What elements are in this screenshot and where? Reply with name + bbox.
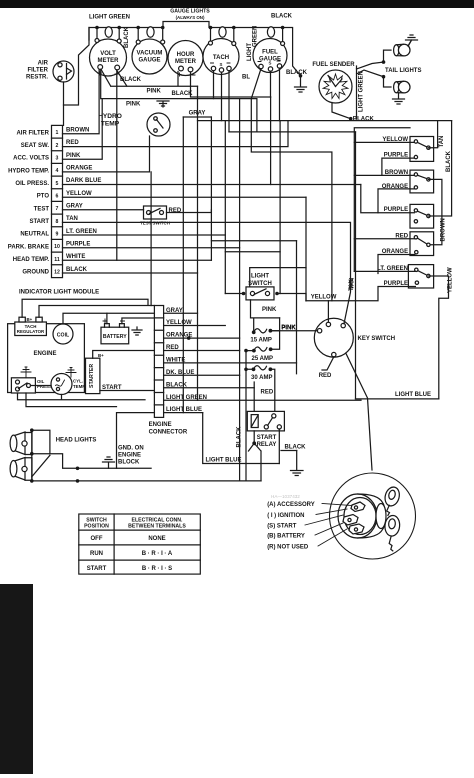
battery bbox=[101, 319, 129, 344]
ground under black dot right of fuel gauge bbox=[295, 76, 307, 92]
wire starter start bbox=[100, 390, 154, 392]
wire row3 pink bbox=[63, 99, 103, 160]
svg-text:AIR: AIR bbox=[38, 61, 49, 67]
svg-text:METER: METER bbox=[175, 59, 197, 65]
wire keyswitch pink bbox=[272, 330, 317, 332]
svg-text:VOLT: VOLT bbox=[100, 51, 116, 57]
svg-text:LIGHT GREEN: LIGHT GREEN bbox=[89, 15, 130, 21]
switch SW1 bbox=[382, 137, 433, 162]
wire sw5 right yellow bbox=[428, 276, 448, 399]
ground above hydro temp bbox=[157, 101, 169, 107]
pin function labels bbox=[8, 130, 50, 275]
wire yellow ladder row bbox=[164, 325, 226, 327]
wire tail light lower feed light green bbox=[357, 66, 392, 119]
wire row8 tan bbox=[63, 222, 351, 323]
ground below right BLACK bbox=[291, 451, 304, 476]
svg-text:TACH: TACH bbox=[213, 55, 229, 61]
wire vertical x296.5 bbox=[296, 241, 298, 374]
svg-text:HYDRO TEMP.: HYDRO TEMP. bbox=[8, 168, 49, 174]
wire sw right black bbox=[428, 121, 451, 216]
svg-text:LT. GREEN: LT. GREEN bbox=[66, 229, 97, 235]
wire row2 red bbox=[63, 121, 289, 147]
svg-text:ENGINE: ENGINE bbox=[33, 351, 56, 357]
head lamp lower bbox=[12, 458, 25, 481]
ENGINE block bbox=[8, 317, 142, 395]
RIGHT switches column bbox=[350, 136, 454, 293]
svg-text:BLACK: BLACK bbox=[271, 14, 293, 20]
wire volt meter black diagonals bbox=[101, 70, 197, 260]
svg-text:REGULATOR: REGULATOR bbox=[17, 329, 45, 334]
wire drop to volt meter right terminal bbox=[118, 28, 120, 40]
svg-text:RED: RED bbox=[261, 390, 274, 396]
wire tail light upper feed bbox=[357, 50, 392, 69]
wire black ladder row bbox=[164, 387, 255, 389]
svg-text:YELLOW: YELLOW bbox=[66, 191, 92, 197]
wire row9 lt green bbox=[63, 234, 226, 236]
svg-text:ELECTRICAL CONN.: ELECTRICAL CONN. bbox=[132, 518, 183, 524]
wire battery to ladder bbox=[107, 313, 154, 323]
gauge VACUUM GAUGE bbox=[132, 39, 167, 74]
lamp bulb over fuel gauge bbox=[267, 27, 274, 37]
gauge TACH bbox=[203, 39, 239, 75]
svg-text:GAUGE: GAUGE bbox=[138, 58, 160, 64]
svg-text:LIGHT GREEN: LIGHT GREEN bbox=[359, 71, 365, 112]
ladder wire color labels bbox=[166, 308, 207, 413]
svg-text:OIL PRESS.: OIL PRESS. bbox=[15, 181, 49, 187]
head lights bbox=[10, 428, 261, 482]
svg-text:DARK BLUE: DARK BLUE bbox=[66, 178, 101, 184]
wire white ladder row bbox=[164, 362, 297, 364]
svg-text:(R) NOT USED: (R) NOT USED bbox=[267, 545, 309, 551]
svg-text:SEAT SW.: SEAT SW. bbox=[21, 143, 50, 149]
tail light lower bbox=[394, 81, 410, 93]
wire row11 white bbox=[63, 259, 212, 261]
wire keyswitch red bbox=[322, 357, 334, 370]
svg-text:HEAD TEMP.: HEAD TEMP. bbox=[13, 257, 50, 263]
svg-text:RESTR.: RESTR. bbox=[26, 75, 48, 81]
terminal numbers 1-12 bbox=[54, 130, 60, 275]
wire air filter to connector pin1 bbox=[63, 82, 65, 125]
wire light blue ladder row bbox=[117, 413, 203, 469]
svg-text:METER: METER bbox=[98, 58, 120, 64]
wire red to relay bbox=[253, 382, 255, 411]
head lamp upper bbox=[12, 432, 25, 455]
svg-text:WHITE: WHITE bbox=[66, 254, 85, 260]
svg-text:BLOCK: BLOCK bbox=[118, 460, 140, 466]
wire hour meter right terminal black bbox=[191, 72, 271, 97]
wire from key switch into illustration bbox=[346, 354, 372, 471]
switch SW5 bbox=[377, 265, 433, 288]
wire row6 yellow bbox=[63, 196, 307, 198]
wire vertical x239.6 bbox=[239, 99, 241, 481]
wire bus y131.9 bbox=[229, 131, 356, 133]
wire vertical x306 yellow bbox=[305, 197, 307, 301]
svg-text:RELAY: RELAY bbox=[257, 442, 277, 448]
wire tach regulator risers bbox=[22, 299, 154, 317]
svg-text:YELLOW: YELLOW bbox=[311, 294, 337, 300]
hydro temp sender bbox=[98, 113, 170, 136]
terminal circles on gauge tops bbox=[95, 39, 99, 43]
engine outline box bbox=[8, 324, 85, 393]
ground above oil press bbox=[21, 367, 31, 378]
connector ladder body bbox=[154, 306, 163, 418]
wire fuse right rail bbox=[270, 318, 279, 349]
svg-text:TAN: TAN bbox=[439, 136, 445, 148]
svg-text:(B) BATTERY: (B) BATTERY bbox=[267, 534, 305, 540]
top black border bar bbox=[0, 0, 474, 8]
LEFTCONN indicator light module connector bbox=[8, 125, 102, 295]
wire light blue mid run bbox=[203, 413, 280, 464]
wire drop to tach left terminal bbox=[210, 28, 212, 42]
tach bottom terminals bbox=[211, 66, 215, 70]
svg-text:( I ) IGNITION: ( I ) IGNITION bbox=[267, 513, 304, 519]
wire sw2-sw4 brown link bbox=[428, 179, 442, 244]
wire row10 purple bbox=[63, 247, 240, 249]
junction dots on gauge light bus bbox=[95, 26, 302, 78]
svg-text:BL: BL bbox=[242, 75, 250, 81]
svg-text:PARK. BRAKE: PARK. BRAKE bbox=[8, 244, 49, 250]
wire bus y251.8 bbox=[225, 251, 280, 253]
wire vertical x270.6 bbox=[270, 97, 272, 185]
svg-text:BETWEEN TERMINALS: BETWEEN TERMINALS bbox=[128, 524, 186, 530]
svg-text:BLACK: BLACK bbox=[66, 267, 88, 273]
svg-text:12: 12 bbox=[54, 270, 60, 276]
wire bus y240.7 bbox=[211, 240, 296, 242]
terminal polarity marks bbox=[98, 61, 281, 76]
lamp bulb over vacuum gauge bbox=[147, 27, 154, 37]
wire left bus x354.3 bbox=[354, 128, 410, 272]
wire switch feeds left red4 bbox=[354, 238, 414, 240]
wire fuel sender to black junction bbox=[332, 103, 351, 119]
callout lines bbox=[322, 504, 352, 506]
svg-text:B · R · I · S: B · R · I · S bbox=[142, 566, 172, 572]
svg-text:BATTERY: BATTERY bbox=[103, 334, 127, 340]
svg-text:7: 7 bbox=[56, 206, 59, 212]
svg-text:AIR FILTER: AIR FILTER bbox=[16, 130, 49, 136]
wire drop to fuel gauge left bbox=[282, 28, 284, 42]
svg-text:8: 8 bbox=[56, 219, 59, 225]
wire switch feeds left purple3 bbox=[361, 185, 415, 213]
svg-text:3: 3 bbox=[56, 156, 59, 162]
svg-text:VACUUM: VACUUM bbox=[137, 51, 163, 57]
wire light switch pink drop to fuse top bbox=[251, 300, 280, 331]
svg-text:CONNECTOR: CONNECTOR bbox=[149, 430, 188, 436]
vertical color labels right side bbox=[350, 136, 454, 293]
svg-text:ENGINE: ENGINE bbox=[118, 453, 141, 459]
black dot on bus bbox=[349, 117, 353, 121]
wire dk blue ladder row bbox=[164, 374, 240, 376]
svg-text:BLACK: BLACK bbox=[172, 91, 194, 97]
svg-text:START: START bbox=[257, 435, 277, 441]
wire relay bottom junction bbox=[249, 431, 262, 481]
svg-text:STARTER: STARTER bbox=[89, 364, 95, 388]
table switch position bbox=[79, 514, 201, 574]
svg-text:FILTER: FILTER bbox=[27, 68, 48, 74]
wire volt meter left terminal pink bbox=[101, 69, 257, 131]
svg-text:FUEL: FUEL bbox=[262, 50, 278, 56]
wire coil to ladder bbox=[63, 313, 154, 324]
wire fuse left rail bbox=[246, 351, 254, 481]
cyl temp sender bbox=[51, 374, 72, 395]
wire row1 brown bbox=[63, 70, 100, 134]
wire switch feeds left yellow bbox=[354, 141, 414, 143]
illustration outline circle bbox=[330, 473, 416, 559]
KEY SWITCH circle bbox=[282, 279, 396, 379]
oil pressure switch bbox=[11, 378, 35, 393]
starter bbox=[86, 358, 100, 393]
wire drop vacuum right / riser bbox=[162, 28, 164, 41]
key switch illustration bbox=[267, 354, 415, 560]
svg-text:5: 5 bbox=[56, 181, 59, 187]
ENGINE CONNECTOR ladder bbox=[149, 306, 207, 436]
svg-text:2: 2 bbox=[56, 143, 59, 149]
wire orange ladder row bbox=[164, 337, 240, 339]
wire gray top bbox=[183, 116, 211, 118]
wire vertical x280.1 bbox=[279, 121, 281, 294]
ground right of battery bbox=[132, 327, 142, 335]
svg-text:GAUGE LIGHTS: GAUGE LIGHTS bbox=[170, 9, 210, 15]
svg-text:S: S bbox=[220, 62, 223, 67]
svg-text:(S) START: (S) START bbox=[267, 524, 297, 530]
wire switch feeds left ltgreen5 bbox=[354, 270, 415, 272]
svg-text:(ALWAYS ON): (ALWAYS ON) bbox=[176, 15, 205, 20]
wire switch feeds left orange2 bbox=[378, 189, 414, 213]
svg-text:PINK: PINK bbox=[147, 89, 162, 95]
wire light blue right run bbox=[356, 398, 439, 400]
wire oil press to cyl temp bbox=[31, 385, 52, 387]
switch SW2 bbox=[382, 170, 434, 193]
svg-text:TEMP: TEMP bbox=[73, 384, 85, 389]
svg-text:ORANGE: ORANGE bbox=[66, 166, 92, 172]
svg-text:B · R · I · A: B · R · I · A bbox=[142, 551, 173, 557]
svg-text:BLACK: BLACK bbox=[285, 445, 307, 451]
fuse 25 AMP bbox=[252, 347, 273, 362]
svg-text:PURPLE: PURPLE bbox=[66, 242, 90, 248]
svg-text:RUN: RUN bbox=[90, 551, 103, 557]
air filter restrictor sensor bbox=[26, 61, 74, 83]
svg-text:LIGHT BLUE: LIGHT BLUE bbox=[395, 392, 431, 398]
svg-text:25 AMP: 25 AMP bbox=[252, 356, 273, 362]
svg-text:4: 4 bbox=[56, 168, 59, 174]
svg-text:30 AMP: 30 AMP bbox=[251, 375, 272, 381]
wire sw right tan bbox=[428, 121, 437, 148]
orange ladder dot bbox=[187, 336, 191, 340]
junction dot under relay bbox=[252, 441, 256, 445]
terminal lugs bbox=[351, 502, 365, 512]
wire light green ladder row bbox=[164, 399, 361, 401]
svg-text:OFF: OFF bbox=[91, 536, 103, 542]
light switch bbox=[242, 274, 279, 300]
svg-text:GRAY: GRAY bbox=[66, 204, 83, 210]
hour meter bottom terminals bbox=[179, 66, 184, 71]
tail light junction dots bbox=[382, 60, 386, 64]
lamp bulb over volt meter bbox=[105, 27, 112, 37]
svg-text:PTO: PTO bbox=[37, 194, 50, 200]
svg-text:LIGHT: LIGHT bbox=[251, 274, 269, 280]
wire color labels bbox=[66, 128, 101, 273]
wire mid link to key switch area bbox=[251, 99, 332, 301]
ground below lower tail light bbox=[393, 93, 405, 104]
svg-text:CYL.: CYL. bbox=[73, 379, 83, 384]
svg-text:1: 1 bbox=[56, 130, 59, 136]
svg-text:PINK: PINK bbox=[262, 307, 277, 313]
ground above cyl temp bbox=[66, 368, 76, 378]
svg-text:BLACK: BLACK bbox=[286, 70, 308, 76]
wire row4 orange to hydro temp bbox=[63, 136, 150, 172]
wire fuel gauge terminals down bbox=[251, 68, 279, 120]
svg-text:PRESS: PRESS bbox=[37, 384, 52, 389]
fuel sender bbox=[312, 62, 355, 103]
ground stubs tail lights bbox=[399, 41, 411, 93]
connector body 12 terminals bbox=[52, 125, 63, 277]
wire switch feeds left purple1 bbox=[382, 158, 415, 175]
wire gauge light bus left segment bbox=[89, 22, 301, 76]
svg-text:NONE: NONE bbox=[148, 536, 165, 542]
svg-text:HA—1037432: HA—1037432 bbox=[271, 494, 300, 499]
wire row5 dark blue bbox=[63, 184, 361, 186]
svg-text:GREEN: GREEN bbox=[253, 26, 259, 47]
svg-text:TAIL LIGHTS: TAIL LIGHTS bbox=[385, 68, 421, 74]
svg-text:LIGHT BLUE: LIGHT BLUE bbox=[206, 458, 242, 464]
wire vertical x355.5 bbox=[355, 132, 357, 399]
svg-text:SWITCH: SWITCH bbox=[86, 518, 107, 524]
LIGHT SWITCH / fuses / relay bbox=[206, 274, 432, 476]
fuel gauge bottom terminals bbox=[259, 64, 263, 68]
svg-text:NEUTRAL: NEUTRAL bbox=[20, 232, 49, 238]
wire switch feeds left brown bbox=[354, 174, 414, 176]
wire starter B+ bbox=[93, 351, 155, 359]
ground above upper tail light bbox=[406, 35, 418, 46]
svg-text:POSITION: POSITION bbox=[84, 524, 109, 530]
wire oil press bottom bbox=[18, 393, 146, 407]
lamp bulb over tach bbox=[219, 27, 226, 37]
wire keyswitch yellow pin riser bbox=[327, 301, 329, 323]
svg-text:15 AMP: 15 AMP bbox=[250, 338, 271, 344]
wire 30amp to relay bbox=[270, 369, 274, 411]
svg-text:9: 9 bbox=[56, 232, 59, 238]
svg-text:RED: RED bbox=[66, 140, 79, 146]
svg-text:11: 11 bbox=[54, 257, 60, 263]
svg-text:S: S bbox=[269, 61, 272, 66]
wire light switch right to yellow bbox=[277, 294, 306, 301]
keys bbox=[383, 485, 402, 507]
svg-text:TEST: TEST bbox=[34, 206, 50, 212]
svg-text:KEY SWITCH: KEY SWITCH bbox=[358, 336, 396, 342]
svg-text:RED: RED bbox=[319, 373, 332, 379]
wire vertical x225.3 bbox=[224, 121, 226, 294]
svg-text:BLACK: BLACK bbox=[124, 26, 130, 48]
gauge FUEL GAUGE bbox=[253, 39, 287, 73]
svg-text:START: START bbox=[87, 566, 107, 572]
wire light switch left bbox=[225, 293, 243, 295]
coil bbox=[53, 324, 73, 344]
tach regulator bbox=[15, 322, 47, 336]
wire hydro orange long vertical bbox=[150, 172, 152, 306]
svg-text:10: 10 bbox=[54, 244, 60, 250]
svg-text:INDICATOR LIGHT MODULE: INDICATOR LIGHT MODULE bbox=[19, 290, 99, 296]
svg-text:COIL: COIL bbox=[57, 333, 70, 339]
wire vertical x211.4 gray bbox=[210, 117, 212, 260]
tail light upper bbox=[394, 44, 410, 56]
svg-text:GND. ON: GND. ON bbox=[118, 446, 144, 452]
wire drop to tach right terminal bbox=[233, 28, 235, 42]
switch SW4 bbox=[382, 232, 434, 256]
svg-text:TAN: TAN bbox=[66, 216, 78, 222]
wire row12 black bbox=[63, 272, 198, 274]
fuse rail dots bbox=[244, 349, 248, 353]
wire tach terminals down bbox=[214, 71, 230, 132]
svg-text:PINK: PINK bbox=[66, 153, 81, 159]
svg-text:SWITCH: SWITCH bbox=[248, 281, 272, 287]
bottom-left black rectangle bbox=[0, 584, 33, 774]
wire relay black to ground bbox=[281, 450, 297, 452]
gnd on engine block bbox=[103, 457, 115, 468]
wire vertical x197.5 bbox=[197, 86, 199, 400]
svg-text:BROWN: BROWN bbox=[66, 128, 89, 134]
svg-text:GROUND: GROUND bbox=[22, 270, 49, 276]
svg-text:TAN: TAN bbox=[349, 279, 355, 291]
wire vertical x183.3 bbox=[182, 117, 184, 413]
callout labels bbox=[267, 502, 315, 551]
head light wires bbox=[31, 430, 33, 481]
svg-text:FUEL SENDER: FUEL SENDER bbox=[312, 62, 355, 68]
wire switch feeds left purple5 bbox=[306, 287, 415, 301]
switch body cylinder bbox=[338, 494, 377, 538]
svg-text:B+: B+ bbox=[98, 353, 104, 358]
svg-text:B+: B+ bbox=[27, 317, 33, 322]
svg-text:BLACK: BLACK bbox=[120, 77, 142, 83]
GAUGETOP bbox=[89, 9, 308, 93]
wire relay right terminal down lightblue bbox=[278, 429, 280, 464]
fuse 30 AMP bbox=[251, 366, 272, 381]
wire long black bus y120.6 bbox=[198, 120, 452, 122]
wire red ladder row bbox=[164, 350, 240, 352]
start relay bbox=[247, 411, 284, 448]
wire drop to volt meter left terminal bbox=[96, 28, 98, 39]
wire row7 gray to test switch bbox=[63, 210, 212, 213]
fuse 15 AMP bbox=[250, 325, 296, 344]
wire gray ladder row bbox=[164, 312, 198, 314]
MAIN WIRES bbox=[18, 28, 452, 500]
wire light green left end drop bbox=[64, 28, 90, 106]
wire drop to vacuum gauge left terminal bbox=[137, 28, 139, 41]
svg-text:(A) ACCESSORY: (A) ACCESSORY bbox=[267, 502, 315, 508]
svg-text:PINK: PINK bbox=[126, 101, 141, 107]
wire bus y267.6 bbox=[250, 268, 306, 287]
test switch bbox=[140, 206, 182, 226]
switch SW3 bbox=[384, 204, 434, 228]
svg-text:ENGINE: ENGINE bbox=[149, 422, 172, 428]
wire switch feeds left orange4 bbox=[378, 255, 415, 274]
svg-text:6: 6 bbox=[56, 194, 59, 200]
gauge VOLT METER bbox=[90, 39, 127, 76]
svg-text:START: START bbox=[29, 219, 49, 225]
volt meter bottom terminals bbox=[98, 65, 103, 70]
svg-text:HEAD LIGHTS: HEAD LIGHTS bbox=[56, 438, 97, 444]
svg-text:ACC. VOLTS: ACC. VOLTS bbox=[13, 156, 49, 162]
gauge HOUR METER bbox=[168, 41, 203, 76]
svg-text:HOUR: HOUR bbox=[177, 52, 195, 58]
